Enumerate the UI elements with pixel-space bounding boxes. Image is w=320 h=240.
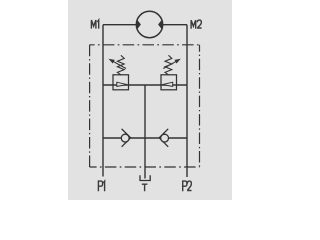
wire right vertical M2-P2 [186, 25, 188, 177]
relief valve RV2 spring [165, 55, 172, 75]
relief valve RV1 flow arrow [117, 82, 127, 86]
port label M2 [191, 20, 202, 29]
relief valve RV2 flow arrow [162, 82, 172, 86]
relief valve RV1 adjustment arrow [112, 61, 126, 69]
port label P2 [183, 181, 192, 191]
relief valve RV1 spring [117, 55, 124, 75]
gray schematic panel [68, 0, 232, 200]
wire check valve line [103, 137, 187, 139]
wire middle vertical to T [144, 85, 146, 179]
motor U1 circle [136, 11, 162, 37]
motor right arrowhead [158, 20, 162, 29]
relief valve RV2 adjustment arrow [163, 61, 177, 69]
port label T [142, 184, 148, 191]
wire relief cross line [103, 84, 187, 86]
tank symbol at T [140, 175, 150, 180]
port label M1 [91, 20, 98, 29]
check valve CV2 seat [159, 129, 168, 147]
check valve CV2 ball [161, 134, 169, 142]
motor left arrowhead [137, 20, 141, 29]
relief valve RV2 body [161, 75, 177, 90]
enclosure boundary (dash-dot) [90, 45, 200, 167]
relief valve RV1 body [113, 75, 129, 90]
wire top line M1-M2 [103, 24, 187, 26]
wire left vertical M1-P1 [102, 25, 104, 177]
port label P1 [98, 181, 104, 191]
check valve CV1 ball [121, 134, 129, 142]
check valve CV1 seat [122, 129, 131, 147]
